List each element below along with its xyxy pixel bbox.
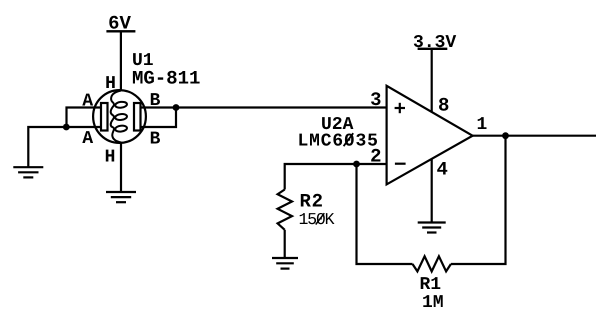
- ground GND1: [13, 167, 43, 177]
- junction node INV: [353, 161, 360, 168]
- pin label H bottom: [106, 150, 114, 162]
- label MG-811: [133, 71, 200, 84]
- wire R2 to ground: [284, 230, 286, 257]
- pin number 3: [371, 92, 381, 105]
- ground GND4: [272, 258, 298, 269]
- wire U1 heater bottom: [120, 143, 122, 192]
- label 150K: [300, 213, 335, 225]
- power 3.3V: [414, 35, 456, 50]
- op-amp U2A: [387, 86, 473, 185]
- power 6V: [106, 16, 135, 33]
- wire U1 pin A bottom to ground: [28, 127, 101, 167]
- pin number 8: [439, 98, 448, 111]
- wire U1 pin A top: [67, 108, 102, 128]
- ground GND3: [418, 223, 446, 233]
- junction node A: [63, 124, 70, 131]
- pin number 2: [371, 149, 380, 162]
- junction node OUT: [502, 132, 509, 139]
- pin label B bottom: [151, 132, 160, 144]
- label U2A: [322, 117, 353, 129]
- pin label A bottom: [82, 131, 93, 143]
- resistor R1: [413, 256, 451, 271]
- pin number 1: [478, 117, 487, 129]
- junction node B: [173, 104, 180, 111]
- wire U1 pin B top to U2A pin 3: [140, 106, 387, 108]
- label R1: [421, 277, 441, 289]
- wire U1 pin B bottom: [140, 108, 176, 128]
- sensor U1 MG-811: [93, 90, 146, 143]
- label LMC6035: [299, 133, 377, 146]
- label R2: [301, 194, 322, 207]
- pin label B top: [151, 93, 160, 105]
- wire 3.3V to pin 8: [431, 49, 433, 112]
- ground GND2: [106, 192, 136, 202]
- wire pin 4 to ground: [431, 159, 433, 222]
- pin label A top: [82, 94, 93, 106]
- wire R2 to U2A pin 2: [285, 164, 387, 190]
- pin label H top: [106, 76, 114, 88]
- pin number 4: [437, 162, 447, 175]
- label U1: [133, 53, 153, 65]
- wire feedback left: [357, 164, 413, 264]
- wire output: [473, 135, 596, 137]
- wire feedback right: [451, 136, 506, 264]
- resistor R2: [278, 190, 292, 230]
- label 1M: [423, 295, 443, 307]
- wire 6V to U1 heater: [120, 31, 122, 90]
